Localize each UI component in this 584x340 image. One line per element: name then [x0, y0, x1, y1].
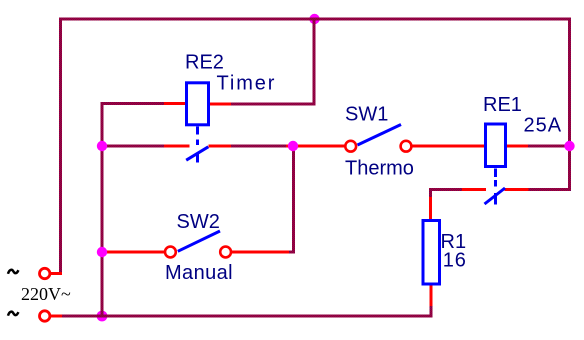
svg-text:RE2: RE2: [185, 52, 224, 74]
svg-text:SW2: SW2: [177, 211, 220, 233]
node top junction: [309, 14, 319, 24]
label AC tilde top: [8, 270, 18, 274]
node SW2 junction: [97, 247, 107, 257]
svg-text:Timer: Timer: [217, 73, 277, 95]
relay contact RE2: [186, 140, 208, 163]
label AC tilde bottom: [8, 312, 18, 316]
wire R1 top pin: [429, 197, 432, 221]
wire SW2 right net: [289, 146, 295, 252]
wire RE2 contact left pin: [164, 145, 190, 148]
wire RE1 contact left pin: [462, 188, 486, 191]
svg-text:Thermo: Thermo: [345, 158, 414, 180]
node main-row right junction: [564, 141, 574, 151]
source terminal L: [40, 268, 50, 278]
svg-text:Manual: Manual: [165, 262, 233, 284]
wire main row left net: [102, 145, 164, 148]
wire source N stub: [51, 315, 62, 318]
wire SW2 left pin: [103, 251, 164, 254]
wire RE1 right pin: [506, 145, 528, 148]
resistor R1: [423, 221, 440, 285]
relay coil RE1: [486, 124, 506, 177]
relay contact RE1: [485, 180, 506, 205]
wire RE2 contact right pin: [209, 145, 232, 148]
wire left branch riser: [101, 102, 104, 318]
wire RE2 right pin: [209, 103, 231, 106]
svg-text:SW1: SW1: [345, 103, 388, 125]
wire RE1 contact right pin: [505, 188, 529, 191]
svg-text:220V~: 220V~: [21, 284, 71, 304]
wire RE2 feed riser: [313, 19, 316, 104]
wire main row mid net: [231, 145, 288, 148]
wire SW2 right pin: [232, 251, 289, 254]
wire RE2 left pin: [164, 102, 186, 105]
wire right bus: [568, 18, 571, 190]
wire left bus: [59, 18, 62, 274]
wire bottom bus: [61, 306, 433, 316]
svg-text:RE1: RE1: [483, 94, 522, 116]
wire RE1 contact right net: [529, 188, 572, 191]
wire RE1 contact left net: [429, 188, 462, 197]
wire RE2 right net: [231, 103, 316, 106]
relay coil RE2: [187, 83, 209, 135]
svg-text:25A: 25A: [524, 115, 563, 137]
wire SW1 right pin to RE1: [412, 145, 485, 148]
node main-row left junction: [97, 141, 107, 151]
wire source L stub: [51, 272, 62, 275]
switch SW2: [165, 231, 231, 257]
switch SW1: [345, 125, 411, 152]
wire R1 bottom pin: [430, 285, 433, 306]
wire SW1 left pin: [286, 145, 345, 148]
source terminal N: [40, 311, 50, 321]
node bottom bus junction: [97, 311, 108, 322]
wire RE2 left net: [102, 102, 164, 105]
wire RE1 right net: [527, 145, 567, 148]
node main-row mid junction: [288, 141, 298, 151]
svg-text:16: 16: [443, 250, 467, 272]
wire top bus: [59, 18, 571, 21]
